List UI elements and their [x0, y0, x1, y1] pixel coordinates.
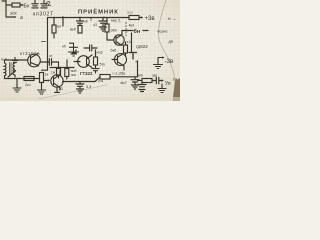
wire R5 bottom — [125, 53, 127, 56]
arrowhead to Bx — [22, 4, 24, 6]
node dot bus x63 — [62, 16, 64, 18]
transistor Q2 emitter — [87, 64, 93, 68]
transistor Q1 base bar — [30, 57, 32, 65]
resistor R8 box — [65, 69, 69, 77]
transistor Q5 circle — [51, 75, 63, 87]
transistor Q2 base bar — [86, 58, 88, 65]
capacitor C1 — [77, 18, 84, 26]
wire R8 stem — [66, 77, 68, 80]
capacitor C9 series bars — [156, 77, 159, 84]
wire Vres top link — [42, 69, 48, 71]
transistor Q2 circle — [78, 56, 90, 68]
corner wire upper mid — [72, 50, 76, 53]
shield dashed line — [125, 22, 127, 36]
transistor Q3 emitter arrowhead — [120, 44, 123, 46]
coil L1 — [5, 60, 6, 79]
wire to node a — [6, 16, 15, 18]
wire to input resistor — [6, 4, 12, 6]
resistor R7 box — [57, 69, 61, 76]
arrowhead to a — [15, 16, 17, 18]
squiggle mark 2 — [46, 1, 51, 5]
transistor Q5 collector — [54, 71, 61, 79]
capacitor C2 with ground — [99, 18, 107, 32]
wire bus to +3V arrow — [139, 17, 142, 19]
wire drop x17 to ground — [16, 79, 18, 88]
transistor Q1 emitter — [31, 63, 39, 66]
resistor R11 box inline — [100, 75, 110, 80]
transformer core bars — [10, 63, 12, 75]
power bus +3V — [48, 17, 130, 19]
transistor Q4 collector — [118, 53, 125, 57]
left shield wire vertical — [47, 18, 49, 71]
wire R12 to C9 — [152, 80, 156, 82]
transistor Q4 emitter — [118, 62, 125, 70]
wire Q3 collector to right — [122, 30, 128, 32]
node dot bus x104 — [103, 17, 105, 19]
wire to R12 — [138, 80, 143, 82]
arrowhead +3V — [141, 16, 143, 18]
dark page edge bottom right — [173, 78, 181, 101]
transistor Q3 base bar — [115, 37, 117, 44]
bus inline resistor box — [129, 16, 139, 20]
wire Q1 to C6 — [40, 61, 49, 63]
output wire bottom left — [5, 78, 40, 80]
bottom scan band — [0, 97, 180, 101]
resistor R9 box vertical — [40, 73, 44, 83]
tuning arrowhead — [14, 70, 17, 72]
wire R9 down to ground — [41, 83, 43, 90]
wire C6 right — [52, 62, 59, 69]
wire R6 bottom — [95, 65, 97, 68]
capacitor C8 with ground — [76, 82, 84, 94]
capacitor C6 bars — [49, 59, 51, 66]
wire R6 top — [95, 50, 97, 57]
coil L2 — [13, 63, 15, 77]
wire bus drop x63 — [62, 18, 64, 27]
wire input vertical — [5, 0, 7, 17]
resistor R6 box — [94, 57, 98, 65]
bold terminal T — [129, 53, 137, 60]
transistor Q4 base bar — [117, 56, 119, 63]
capacitor to ground top C-a — [32, 0, 38, 8]
tuning arrow — [8, 71, 16, 77]
resistor R1 box — [52, 25, 56, 33]
resistor R3 box — [105, 24, 109, 32]
transistor Q3 collector — [116, 31, 122, 39]
wire R3 to Q3 base — [107, 32, 114, 40]
wire Q5 to bottom rail — [63, 77, 138, 82]
transistor Q1 circle — [28, 54, 41, 67]
transistor Q1 collector — [31, 54, 38, 59]
capacitor to ground top C-b — [41, 0, 47, 8]
transistor Q4 circle — [115, 54, 127, 66]
wire Q5 emitter stub — [56, 87, 58, 92]
graph paper grid — [0, 0, 180, 101]
resistor R10 box inline — [24, 77, 34, 81]
electrolytic bold mark left lead — [127, 30, 133, 32]
wire R7 stem — [58, 76, 60, 79]
capacitor C7 with ground — [131, 77, 139, 89]
wire C9 to Um arrow — [159, 80, 162, 82]
transistor Q2 collector — [87, 55, 93, 59]
tick mark mid-left — [42, 41, 46, 43]
node dot bus x54 — [53, 17, 55, 19]
wire drop x67 — [66, 60, 68, 69]
trimmer capacitor above L2 — [13, 58, 18, 63]
node dot bus x80 — [79, 17, 81, 19]
transistor Q2 base wire left — [74, 61, 80, 63]
ground G5 — [158, 84, 166, 93]
transistor Q1 emitter arrowhead — [36, 64, 39, 66]
wire R5 top — [125, 42, 127, 45]
wire L1 to Q1 base — [5, 59, 29, 61]
transistor Q3 emitter — [116, 42, 122, 46]
bottom crease diagonal — [38, 85, 108, 100]
ground G4 with -3V arrow — [154, 56, 165, 68]
paper grain overlay — [0, 0, 180, 101]
wire bus drop x108 — [106, 18, 108, 25]
bias wire horizontal — [50, 67, 74, 69]
transistor Q5 base bar — [53, 77, 55, 85]
capacitor C10 with ground — [138, 83, 146, 92]
ground G2 — [38, 90, 46, 94]
transistor Q3 circle — [114, 35, 124, 45]
transistor Q5 emitter — [54, 83, 61, 90]
wire vertical feed x137.5 — [137, 61, 139, 77]
wire bus drop x54 — [53, 18, 55, 26]
wire vertical x131.5 — [131, 33, 133, 52]
transistor Q4 base wire — [112, 59, 118, 61]
ground G1 mid — [69, 43, 79, 56]
wire resistor to arrow — [20, 4, 23, 6]
capacitor C4 series bars — [84, 45, 97, 51]
capacitor C5 plates — [92, 69, 99, 73]
paper background — [0, 0, 180, 101]
resistor R2 box — [78, 26, 82, 34]
wire top tick — [2, 0, 6, 2]
wire R1 down — [53, 33, 55, 38]
paper crease right side — [159, 0, 176, 101]
ground G3 — [13, 88, 21, 92]
dirt specks — [10, 8, 173, 98]
resistor R5 box — [124, 45, 128, 53]
arrow into Q5 base — [44, 80, 49, 82]
arrowhead Q5 base — [48, 79, 50, 81]
resistor R12 box inline — [142, 79, 152, 83]
ground G6 small — [55, 91, 60, 93]
resistor R-in box — [12, 3, 20, 7]
electrolytic bold mark right lead — [143, 30, 148, 32]
arrowhead Um — [162, 79, 164, 81]
